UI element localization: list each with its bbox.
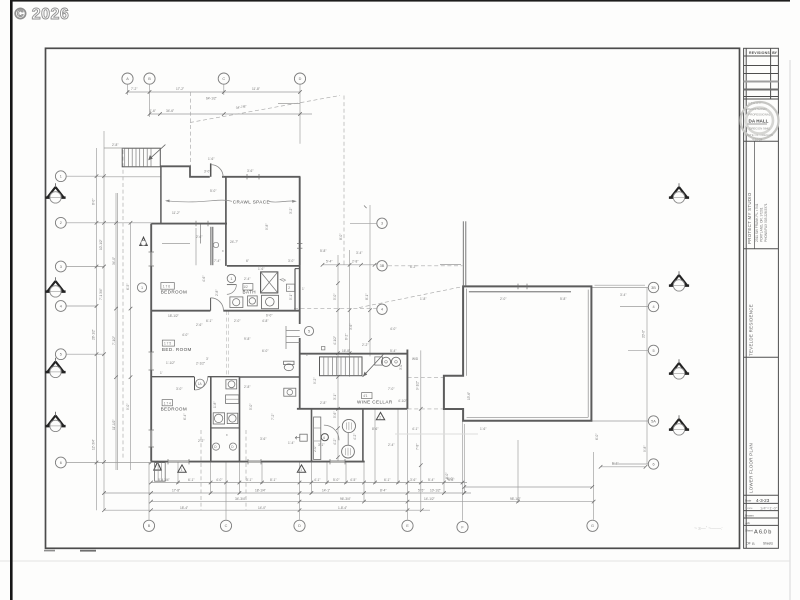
svg-text:4'-6": 4'-6"	[202, 276, 206, 282]
keynote triangle 2	[297, 465, 305, 472]
bedroom1 label	[161, 283, 174, 290]
plan bubble 5 stairs	[304, 326, 313, 335]
svg-text:Job: Job	[745, 521, 750, 525]
stair dims top-left inside	[162, 243, 190, 245]
left vertical dim line c double	[115, 193, 117, 470]
flag marker right y193	[669, 183, 689, 203]
left black margin bar	[10, 0, 13, 600]
svg-text:3'-0": 3'-0"	[399, 364, 403, 370]
svg-text:2'-0": 2'-0"	[234, 319, 240, 323]
svg-text:W/D: W/D	[412, 357, 419, 361]
firm info vertical text	[747, 192, 752, 244]
svg-text:28'-1/2": 28'-1/2"	[92, 329, 96, 340]
bath3 partition	[211, 427, 240, 429]
svg-text:6'-1": 6'-1"	[188, 478, 194, 482]
svg-text:14'-1": 14'-1"	[322, 489, 330, 493]
svg-text:5'-4": 5'-4"	[428, 478, 434, 482]
svg-text:1': 1'	[160, 371, 163, 375]
svg-text:4'-2": 4'-2"	[333, 439, 337, 445]
bubble C leader	[223, 84, 225, 95]
svg-text:4'-1": 4'-1"	[412, 427, 418, 431]
date row	[744, 502, 779, 504]
svg-text:4'-0": 4'-0"	[216, 478, 222, 482]
powder door swing	[324, 425, 339, 440]
svg-text:5: 5	[308, 329, 310, 333]
grid 3 leader inside plan	[350, 222, 376, 224]
south exterior wall	[151, 461, 365, 463]
svg-text:4-30-24: 4-30-24	[752, 138, 763, 142]
svg-text:98'-1/2": 98'-1/2"	[510, 497, 521, 501]
svg-text:~ s—' ~——:: ~ s—' ~——:	[694, 526, 723, 532]
svg-text:REVISIONS: REVISIONS	[749, 51, 770, 55]
svg-text:2'-0": 2'-0"	[313, 446, 317, 452]
svg-text:1 7 4: 1 7 4	[164, 401, 171, 405]
svg-text:REGISTERED: REGISTERED	[747, 107, 767, 111]
svg-text:5'-8": 5'-8"	[320, 249, 326, 253]
svg-text:3'-1": 3'-1"	[318, 443, 324, 447]
svg-text:Sheets: Sheets	[763, 542, 773, 546]
svg-text:18'-1/4": 18'-1/4"	[255, 489, 266, 493]
top dim row 1	[128, 91, 301, 93]
annotation specks cluster crawl	[172, 157, 305, 323]
inner vertical dim string 3	[369, 205, 371, 356]
svg-text:34'-3/4": 34'-3/4"	[235, 497, 246, 501]
title block inner left double line	[745, 48, 747, 548]
svg-text:7'-0": 7'-0"	[388, 387, 394, 391]
svg-text:14'-0": 14'-0"	[258, 506, 266, 510]
flag marker left y372	[45, 358, 65, 378]
crawl east wall opening ticks	[297, 243, 302, 245]
svg-text:8'-6": 8'-6"	[372, 427, 378, 431]
svg-text:2311 SW FRANK PL. • 541: 2311 SW FRANK PL. • 541	[755, 203, 759, 242]
svg-text:3'-1": 3'-1"	[246, 478, 252, 482]
svg-text:16'-8": 16'-8"	[342, 349, 350, 353]
svg-text:6'-4": 6'-4"	[183, 414, 187, 420]
inner horizontal dim row mid	[323, 264, 377, 266]
garage bottom dim	[600, 466, 645, 468]
svg-text:6'-1": 6'-1"	[612, 462, 618, 466]
svg-text:WINE CELLAR: WINE CELLAR	[357, 399, 393, 404]
svg-text:OREGON 9641: OREGON 9641	[749, 127, 770, 131]
bubble A leader	[127, 84, 129, 95]
grid bubble 1 left	[55, 171, 66, 182]
grid bubble A top	[122, 73, 133, 84]
svg-text:1: 1	[300, 468, 302, 472]
paper bottom faint line	[0, 560, 790, 562]
top black edge line	[10, 0, 790, 2]
bubble B leader	[149, 84, 151, 117]
svg-text:24'-7": 24'-7"	[230, 240, 238, 244]
drawing frame border	[46, 48, 740, 548]
svg-text:5'-0": 5'-0"	[333, 294, 337, 300]
svg-text:7'-1 3/4": 7'-1 3/4"	[99, 288, 103, 300]
svg-text:9'-8": 9'-8"	[643, 446, 647, 452]
svg-text:10'-1/2": 10'-1/2"	[99, 239, 103, 250]
grid bubble F bottom	[457, 521, 468, 532]
architect stamp seal	[741, 101, 779, 142]
svg-text:© 2026: © 2026	[15, 6, 70, 23]
svg-text:2'-6": 2'-6"	[196, 323, 202, 327]
svg-text:6'-2": 6'-2"	[345, 334, 349, 340]
keynote triangle 3	[376, 412, 384, 419]
stairs lower	[320, 357, 363, 376]
powder east wall	[362, 409, 364, 462]
bedroom1 door swing	[210, 298, 212, 311]
svg-text:5'-4": 5'-4"	[326, 260, 332, 264]
client name vertical text	[749, 304, 754, 356]
shower controls scribble	[280, 279, 286, 282]
misc vertical drops to dim rows	[177, 462, 179, 484]
svg-text:5'-6": 5'-6"	[333, 412, 337, 418]
svg-text:C: C	[222, 77, 225, 81]
svg-text:9'-2": 9'-2"	[313, 378, 317, 384]
svg-text:A 6.0 b: A 6.0 b	[754, 530, 771, 536]
svg-text:4: 4	[60, 304, 62, 308]
bath2 sink 2	[248, 296, 258, 306]
svg-text:8'-0": 8'-0"	[447, 477, 453, 481]
stamp box bottom	[744, 140, 779, 142]
svg-text:3'-1": 3'-1"	[333, 394, 337, 400]
svg-text:4: 4	[652, 305, 654, 309]
dashed vertical below C wall jog	[190, 92, 192, 166]
svg-text:BEDROOM: BEDROOM	[161, 407, 188, 412]
svg-text:9'-8": 9'-8"	[265, 224, 269, 230]
svg-text:64'-1/2": 64'-1/2"	[206, 97, 217, 101]
svg-text:B: B	[148, 77, 151, 81]
grid bubble 5A right	[648, 416, 658, 426]
bedroom3 door swing	[195, 377, 208, 390]
svg-text:3'-0": 3'-0"	[288, 259, 294, 263]
svg-text:2'-2": 2'-2"	[362, 343, 368, 347]
svg-text:3'-6": 3'-6"	[410, 478, 416, 482]
svg-text:1'-4": 1'-4"	[288, 441, 294, 445]
mudroom south wall	[297, 408, 408, 410]
svg-text:3'-6": 3'-6"	[247, 169, 253, 173]
svg-text:3: 3	[381, 222, 383, 226]
svg-text:E: E	[406, 524, 409, 528]
top dim row 2b short	[278, 103, 300, 105]
bath3 fixtures	[226, 380, 237, 389]
svg-text:5'-0": 5'-0"	[249, 404, 253, 410]
small flag inside plan near west wall	[140, 237, 147, 245]
dashed vertical x344	[343, 96, 345, 265]
svg-text:2'-8": 2'-8"	[112, 143, 118, 147]
stairs arrow upper-left (down-left)	[149, 145, 165, 160]
svg-text:2: 2	[288, 286, 290, 290]
dashed walkway bottom	[408, 408, 444, 410]
svg-text:6: 6	[652, 462, 654, 466]
svg-text:2'-1/2": 2'-1/2"	[196, 362, 205, 366]
house north wall	[151, 223, 227, 225]
svg-text:5'-4": 5'-4"	[390, 349, 396, 353]
svg-text:B: B	[752, 541, 755, 546]
flag marker right y281	[669, 271, 689, 291]
flag marker left y425	[45, 412, 65, 432]
bath3 east wall	[239, 377, 241, 462]
client box bottom	[744, 356, 779, 358]
garage inner wall lines	[469, 291, 571, 293]
bedroom2 label	[162, 340, 174, 346]
svg-text:7'-2": 7'-2"	[271, 414, 275, 420]
left vertical dim line d	[130, 223, 132, 470]
grid bubble 6 left	[55, 457, 66, 468]
firm info divider	[754, 141, 756, 249]
svg-text:2'-8": 2'-8"	[352, 260, 358, 264]
title block outer box	[744, 48, 779, 548]
hall landing steps	[286, 326, 300, 349]
svg-text:6'-0": 6'-0"	[262, 349, 268, 353]
dashed drops near powder	[200, 430, 202, 510]
svg-text:18'-1/2": 18'-1/2"	[168, 314, 179, 318]
tiny plot-file text under frame	[44, 550, 55, 552]
svg-text:5'-1": 5'-1"	[289, 294, 293, 300]
svg-text:3: 3	[60, 265, 62, 269]
svg-text:3'-0": 3'-0"	[176, 387, 182, 391]
svg-text:DA HALL: DA HALL	[749, 118, 769, 123]
crawl label leader right	[269, 201, 296, 202]
closet fixture right of bath	[286, 284, 294, 291]
svg-text:7'-4": 7'-4"	[214, 259, 220, 263]
grid bubble G bottom	[587, 520, 598, 531]
svg-text:5A: 5A	[651, 419, 656, 423]
svg-text:8'-1": 8'-1"	[365, 294, 369, 300]
svg-text:1: 1	[181, 468, 183, 472]
dashed diagonal top	[190, 96, 340, 123]
bath3 wall to hall	[240, 376, 300, 378]
svg-text:6'-1": 6'-1"	[206, 319, 212, 323]
bath2 label	[243, 284, 253, 290]
svg-text:1'-6": 1'-6"	[150, 109, 156, 113]
svg-text:BATH: BATH	[243, 289, 257, 294]
sheet title box bottom	[744, 494, 779, 496]
bottom dim row 1	[151, 482, 467, 484]
svg-text:9'-8": 9'-8"	[244, 337, 250, 341]
faint patio line	[395, 433, 478, 435]
svg-text:C: C	[225, 524, 228, 528]
annotation specks cluster mid	[306, 234, 426, 447]
svg-text:5: 5	[60, 353, 62, 357]
small dim stub above stairs	[103, 131, 105, 148]
crawl south wall	[227, 265, 300, 267]
svg-text:6'-0": 6'-0"	[266, 314, 272, 318]
svg-text:8'-0": 8'-0"	[92, 199, 96, 205]
svg-text:3'-6": 3'-6"	[349, 324, 353, 330]
svg-text:BED. ROOM: BED. ROOM	[162, 347, 192, 352]
grid bubble C bottom	[220, 520, 231, 531]
svg-text:PROFESSIONAL: PROFESSIONAL	[749, 113, 771, 117]
drawn row	[744, 517, 779, 519]
porch steps bottom-left	[155, 463, 166, 482]
svg-text:5'-0": 5'-0"	[333, 478, 339, 482]
svg-text:3'-0": 3'-0"	[204, 170, 210, 174]
svg-text:2'-0": 2'-0"	[500, 297, 506, 301]
svg-text:1': 1'	[302, 287, 305, 291]
grid bubble 2 left	[55, 217, 66, 228]
keynote triangle 1	[178, 465, 186, 472]
inner vertical dim string 2	[349, 250, 351, 377]
south wall window breaks	[168, 461, 345, 463]
svg-text:11'-1/2": 11'-1/2"	[112, 419, 116, 430]
svg-text:5'-8": 5'-8"	[560, 297, 566, 301]
svg-text:4'-0": 4'-0"	[390, 327, 396, 331]
crawl east wall	[299, 177, 301, 266]
svg-text:B: B	[148, 524, 151, 528]
svg-text:2'-8": 2'-8"	[215, 290, 219, 296]
revisions header row	[744, 55, 779, 57]
svg-text:7'-8": 7'-8"	[416, 444, 420, 450]
bedroom1 south wall left	[151, 310, 210, 312]
small flag inside plan near bottom-left wall	[154, 462, 161, 470]
svg-text:8'-0": 8'-0"	[339, 234, 343, 240]
svg-text:2'-6": 2'-6"	[196, 235, 202, 239]
revisions BY column divider	[770, 48, 772, 99]
washer dryer	[375, 357, 383, 365]
scale row	[744, 510, 779, 512]
bedroom2 / bedroom3 partition	[151, 376, 194, 378]
svg-text:4'-1/2": 4'-1/2"	[398, 399, 407, 403]
grid bubble 5 left	[55, 349, 66, 360]
svg-text:A T E O F: A T E O F	[748, 101, 761, 105]
svg-text:11'-8": 11'-8"	[252, 87, 260, 91]
closet divider bedroom1	[200, 225, 202, 244]
svg-text:6'-0": 6'-0"	[595, 434, 599, 440]
svg-text:A: A	[126, 77, 129, 81]
svg-text:1'-8": 1'-8"	[420, 297, 426, 301]
dashed walkway top	[408, 376, 444, 378]
svg-text:1'-6": 1'-6"	[480, 427, 486, 431]
bubble D leader	[299, 84, 301, 144]
svg-text:1: 1	[230, 277, 232, 281]
svg-text:8'-1": 8'-1"	[270, 478, 276, 482]
svg-text:3'-4": 3'-4"	[620, 293, 626, 297]
svg-text:34'-6": 34'-6"	[166, 109, 174, 113]
door swing crawl entry	[210, 163, 212, 176]
bedroom1 closet walls	[210, 227, 212, 265]
garage outer wall	[444, 286, 592, 420]
svg-text:OF: OF	[746, 542, 751, 546]
bedroom3 label	[162, 400, 172, 406]
grid bubble D bottom	[294, 520, 305, 531]
sheet title vertical text	[749, 443, 754, 493]
paper right edge faint line	[789, 60, 791, 600]
bath entry door arc	[227, 285, 237, 295]
window jamb ticks west wall	[149, 174, 528, 464]
svg-text:PROTECT MY STUDIO: PROTECT MY STUDIO	[747, 192, 752, 244]
crawl west wall	[160, 166, 162, 223]
stairs upper-left	[122, 148, 160, 167]
svg-text:12'-3/4": 12'-3/4"	[92, 439, 96, 450]
svg-text:7'-2": 7'-2"	[131, 87, 137, 91]
left bubble leaders	[66, 175, 104, 177]
svg-text:11'-2": 11'-2"	[172, 211, 180, 215]
west wall window breaks	[150, 252, 152, 447]
grid bubble 5 right	[648, 345, 658, 355]
svg-text:D: D	[298, 524, 301, 528]
grid bubble 4 left	[55, 301, 66, 312]
svg-text:4'-8": 4'-8"	[262, 319, 268, 323]
svg-text:BY: BY	[772, 51, 777, 55]
bottom dim row 4	[104, 509, 430, 511]
svg-text:PORTLAND, OR. 97201: PORTLAND, OR. 97201	[760, 207, 764, 242]
svg-text:1'-6": 1'-6"	[208, 157, 214, 161]
svg-text:6: 6	[323, 436, 325, 440]
bottom bubble leaders	[148, 462, 150, 520]
svg-text:1 7 5: 1 7 5	[164, 342, 171, 346]
svg-text:4: 4	[381, 308, 383, 312]
svg-text:3B: 3B	[380, 264, 385, 268]
svg-text:4'-2": 4'-2"	[353, 434, 357, 440]
grid bubble 4 right	[648, 301, 658, 311]
flag marker left y193	[45, 183, 65, 203]
deck line left of stairs	[104, 147, 124, 149]
svg-text:G: G	[591, 524, 594, 528]
svg-text:4'-1/2": 4'-1/2"	[333, 336, 337, 345]
grid bubble B bottom	[143, 520, 154, 531]
svg-text:9'-0": 9'-0"	[126, 404, 130, 410]
left vertical dim line a	[96, 170, 98, 510]
svg-text:6'-5": 6'-5"	[126, 284, 130, 290]
hall label box with arrow	[300, 434, 307, 441]
dashed diagonal to garage	[359, 287, 463, 308]
dashed closet line	[226, 311, 228, 376]
firm info box bottom	[744, 248, 779, 250]
bath east partition	[294, 269, 296, 311]
mudroom east wall	[406, 350, 408, 409]
plan bubble bath	[227, 274, 235, 282]
svg-text:PHONE/FAX 503.228.5371: PHONE/FAX 503.228.5371	[764, 203, 768, 242]
grid bubble 6 right	[648, 459, 658, 469]
svg-text:LOWER FLOOR PLAN: LOWER FLOOR PLAN	[749, 443, 754, 493]
dashed lower horizontal grid4	[294, 307, 376, 309]
mudroom north wall	[300, 353, 408, 355]
bedroom1 south wall right	[223, 310, 299, 312]
powder west wall	[311, 409, 313, 462]
left vertical dim line b	[103, 148, 105, 510]
svg-text:2'-2": 2'-2"	[198, 439, 204, 443]
annotation specks cluster lower-left	[160, 323, 294, 445]
svg-text:D: D	[299, 77, 302, 81]
svg-text:Sheet: Sheet	[745, 529, 753, 533]
svg-text:5'-5": 5'-5"	[418, 489, 424, 493]
exterior wall: crawl north right of door	[222, 176, 300, 178]
svg-text:CRAWL SPACE: CRAWL SPACE	[233, 200, 270, 205]
svg-text:1/4"=1'-0": 1/4"=1'-0"	[760, 506, 778, 511]
deck edge line y177	[104, 176, 161, 178]
door jamb marker square	[322, 347, 325, 350]
svg-text:2: 2	[60, 221, 62, 225]
svg-text:6: 6	[60, 461, 62, 465]
svg-text:5: 5	[652, 349, 654, 353]
svg-text:1: 1	[141, 286, 143, 290]
svg-text:3'-4": 3'-4"	[356, 251, 362, 255]
bath3 west wall	[210, 377, 212, 462]
svg-text:1'-6": 1'-6"	[258, 267, 264, 271]
svg-text:1: 1	[60, 175, 62, 179]
stairs lower run diagonal	[363, 354, 384, 377]
fixture connector	[347, 432, 349, 445]
svg-text:2'-8": 2'-8"	[320, 401, 326, 405]
svg-text:4'-5": 4'-5"	[350, 478, 356, 482]
svg-text:6'-1": 6'-1"	[384, 478, 390, 482]
svg-text:TEVELDE RESIDENCE: TEVELDE RESIDENCE	[749, 304, 754, 356]
svg-text:3'-2": 3'-2"	[289, 208, 293, 214]
right bubble column line	[646, 288, 648, 465]
plan bubble row mid x382	[377, 218, 387, 228]
svg-text:20'-0": 20'-0"	[642, 330, 646, 338]
svg-text:5'-0": 5'-0"	[210, 189, 216, 193]
bath4 fixtures	[284, 364, 293, 371]
svg-text:4'-1": 4'-1"	[314, 478, 320, 482]
